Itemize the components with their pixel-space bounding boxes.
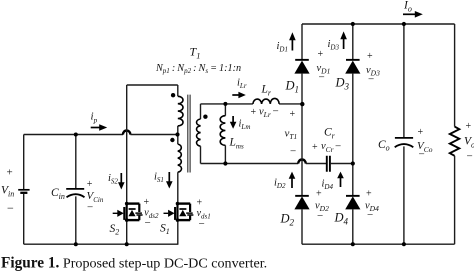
- svg-text:−: −: [7, 201, 14, 215]
- svg-text:Lr: Lr: [261, 84, 272, 98]
- svg-text:Cr: Cr: [324, 127, 336, 141]
- transformer primary winding Np2 lead top: [177, 135, 179, 145]
- svg-text:vLr: vLr: [259, 107, 271, 120]
- svg-text:+: +: [318, 49, 324, 60]
- svg-text:iD3: iD3: [328, 39, 340, 52]
- current arrow i_p: [91, 127, 100, 129]
- wire: output top rail: [302, 23, 455, 25]
- wire: input top rail left of hop: [24, 134, 123, 136]
- svg-text:iD4: iD4: [322, 179, 334, 192]
- capacitor C_in lead top: [75, 135, 77, 189]
- node: Co bottom rail junction: [402, 242, 406, 246]
- battery V_in plates: [18, 189, 29, 191]
- svg-text:S1: S1: [160, 222, 170, 236]
- svg-text:Co: Co: [378, 139, 390, 153]
- svg-text:D4: D4: [334, 211, 349, 227]
- node: S2 bottom rail junction: [125, 242, 129, 246]
- svg-text:vT1: vT1: [285, 127, 298, 141]
- svg-text:−: −: [467, 151, 473, 163]
- svg-text:−: −: [368, 74, 374, 86]
- node: center tap junction: [175, 132, 179, 136]
- svg-text:ip: ip: [91, 111, 98, 125]
- svg-text:iS1: iS1: [154, 172, 164, 185]
- svg-text:−: −: [199, 218, 205, 230]
- polarity dot: secondary Ns: [203, 115, 207, 119]
- diode D3: [345, 61, 360, 74]
- inductor Lr coil: [253, 98, 279, 103]
- svg-text:−: −: [317, 210, 323, 222]
- capacitor Cr plates: [327, 156, 330, 172]
- battery V_in lead top: [23, 135, 25, 190]
- transformer secondary winding Ns lead top: [200, 104, 202, 119]
- current arrow i_D3: [343, 39, 345, 50]
- svg-text:+: +: [290, 109, 296, 120]
- polarity dot: primary Np2: [170, 138, 174, 142]
- node: Co top rail junction: [402, 22, 406, 26]
- node: D4 bottom rail junction: [351, 242, 355, 246]
- current arrow i_Lm: [232, 116, 234, 123]
- transformer core: [188, 95, 190, 173]
- load resistor lead top: [454, 24, 456, 127]
- diode D2: [294, 196, 309, 209]
- svg-text:Cin: Cin: [51, 187, 65, 201]
- MOSFET S2: [113, 202, 143, 222]
- svg-text:iLm: iLm: [239, 119, 251, 132]
- svg-text:−: −: [273, 106, 279, 118]
- node: Lm top junction: [223, 102, 227, 106]
- current arrow i_D4: [340, 178, 342, 188]
- wire: secondary top rail: [201, 103, 303, 105]
- current arrow i_D1: [291, 40, 293, 51]
- diode D1: [294, 61, 309, 74]
- wire: input top rail right of hop: [130, 134, 177, 136]
- node: Cin top junction: [74, 133, 78, 137]
- svg-text:+: +: [367, 51, 373, 62]
- transformer primary winding Np2 coil: [178, 144, 182, 172]
- diode D4: [345, 196, 360, 209]
- current arrow i_S2: [120, 173, 122, 183]
- wire hop: rail over S2 branch: [123, 131, 130, 135]
- polarity dot: primary Np1: [171, 93, 175, 97]
- svg-text:+: +: [144, 197, 150, 208]
- capacitor Co flat plate: [395, 137, 413, 139]
- node: Cr to D3-D4 junction: [351, 161, 355, 165]
- svg-text:+: +: [312, 142, 318, 153]
- transformer secondary winding Ns coil: [197, 119, 201, 146]
- wire: Np2 bottom to S1 drain: [177, 172, 179, 203]
- transformer secondary winding Ns lead bottom: [200, 146, 202, 163]
- svg-text:Np1 : Np2 : Ns = 1:1:n: Np1 : Np2 : Ns = 1:1:n: [155, 63, 241, 75]
- node: Lm bottom junction: [223, 161, 227, 165]
- capacitor C_in lead bottom: [75, 196, 77, 244]
- MOSFET S1: [164, 202, 194, 222]
- wire: Cr to D3-D4 midpoint: [331, 163, 353, 165]
- svg-text:Lms: Lms: [229, 137, 244, 151]
- svg-text:D1: D1: [285, 79, 300, 95]
- wire: S1 source to rail: [177, 220, 179, 244]
- wire: D1-D2 leg: [301, 24, 303, 244]
- inductor Lm lead top: [224, 104, 226, 116]
- wire: output bottom rail: [302, 243, 455, 245]
- node: Cin bottom junction: [74, 242, 78, 246]
- load resistor zigzag: [450, 127, 460, 156]
- svg-text:+: +: [197, 198, 203, 209]
- svg-text:iS2: iS2: [108, 173, 118, 186]
- node: D3 top rail junction: [351, 22, 355, 26]
- svg-text:Figure 1. Proposed step-up DC-: Figure 1. Proposed step-up DC-DC convert…: [1, 255, 267, 272]
- wire: bottom left rail: [24, 243, 179, 245]
- node: Lr to D1 junction: [300, 102, 304, 106]
- svg-text:+: +: [251, 107, 257, 118]
- wire: D3-D4 leg: [352, 24, 354, 244]
- svg-text:+: +: [7, 167, 13, 179]
- capacitor C_in flat plate: [66, 188, 84, 190]
- svg-text:−: −: [145, 217, 151, 229]
- svg-text:−: −: [87, 202, 93, 214]
- wire: S2 branch vertical (loop left side): [126, 85, 128, 204]
- battery V_in lead bottom: [23, 194, 25, 244]
- current arrow i_D2: [291, 178, 293, 188]
- svg-text:+: +: [466, 121, 472, 132]
- wire: S2 source to rail: [126, 220, 128, 244]
- svg-text:+: +: [418, 127, 424, 138]
- load resistor lead bottom: [454, 156, 456, 244]
- capacitor C_in curved plate: [67, 194, 85, 197]
- svg-text:−: −: [419, 149, 425, 161]
- svg-text:iD2: iD2: [274, 178, 286, 191]
- svg-text:+: +: [366, 189, 372, 200]
- svg-text:iD1: iD1: [277, 41, 288, 54]
- current arrow i_Lr: [232, 94, 239, 96]
- transformer primary winding Np1 leads: [177, 85, 179, 135]
- transformer primary winding Np1 coil: [178, 96, 183, 126]
- svg-text:S2: S2: [110, 223, 120, 237]
- inductor Lm lead bottom: [224, 145, 226, 163]
- svg-text:−: −: [335, 140, 341, 152]
- wire hop: bottom wire over D1-D2 leg: [298, 160, 306, 164]
- svg-text:D2: D2: [280, 212, 295, 228]
- current arrow i_S1: [168, 172, 170, 182]
- svg-text:−: −: [290, 146, 296, 158]
- svg-text:D3: D3: [335, 76, 350, 92]
- svg-text:iLr: iLr: [237, 78, 247, 91]
- svg-text:Vo: Vo: [464, 136, 474, 150]
- svg-text:+: +: [316, 189, 322, 200]
- wire: secondary bottom rail left of hop: [201, 163, 299, 165]
- svg-text:Vin: Vin: [1, 185, 14, 199]
- inductor Lm coil: [220, 116, 225, 146]
- capacitor Co lead bottom: [403, 146, 405, 244]
- svg-text:T1: T1: [190, 45, 201, 61]
- capacitor Co lead top: [403, 24, 405, 137]
- svg-text:+: +: [87, 179, 93, 190]
- capacitor Co curved plate: [395, 144, 414, 147]
- wire: top winding loop top: [127, 84, 178, 86]
- svg-text:vCr: vCr: [321, 141, 334, 154]
- wire: bottom rail hop to Cr: [306, 163, 326, 165]
- svg-text:Io: Io: [403, 0, 412, 13]
- current arrow I_o: [403, 13, 416, 15]
- svg-text:−: −: [367, 209, 373, 221]
- svg-text:−: −: [319, 72, 325, 84]
